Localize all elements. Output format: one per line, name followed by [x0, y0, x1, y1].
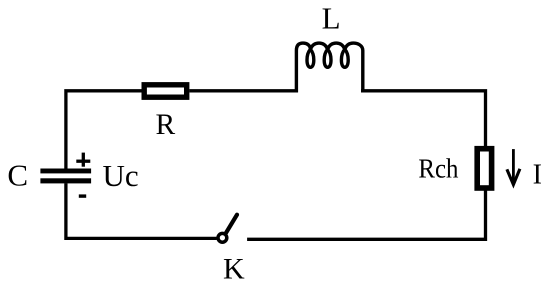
svg-text:R: R [156, 109, 176, 141]
svg-text:Rch: Rch [418, 154, 458, 184]
svg-text:I: I [533, 160, 542, 191]
svg-text:K: K [223, 252, 245, 285]
svg-text:L: L [322, 1, 341, 36]
svg-text:C: C [7, 157, 28, 192]
svg-text:Uc: Uc [103, 158, 139, 193]
